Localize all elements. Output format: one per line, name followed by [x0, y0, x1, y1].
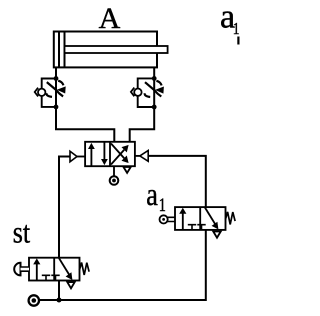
svg-text:st: st: [13, 215, 30, 250]
svg-text:a: a: [146, 178, 158, 213]
svg-text:1: 1: [159, 194, 166, 215]
svg-text:A: A: [99, 2, 121, 35]
svg-text:1: 1: [233, 20, 240, 39]
